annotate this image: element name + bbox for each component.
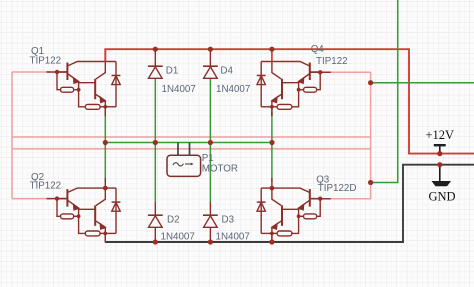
wire: green link bus to Q3 collector <box>271 143 273 183</box>
wire: green link bus to Q2 collector <box>104 143 106 183</box>
transistor Q4 TIP122 (mirrored) <box>257 62 320 117</box>
svg-text:D2: D2 <box>167 215 180 226</box>
svg-text:Q4: Q4 <box>311 44 325 55</box>
node: green bus junction at D1/D2 column <box>153 140 158 145</box>
svg-text:TIP122D: TIP122D <box>318 183 357 194</box>
node: right vertical to green output junction (top) <box>368 80 373 85</box>
node: green bus junction at D4/D3 column <box>208 140 213 145</box>
node: +12V junction on red rail <box>437 151 442 156</box>
svg-text:1N4007: 1N4007 <box>162 84 196 95</box>
wire: salmon Q1 base wire <box>12 71 50 73</box>
node: Q3 base junction <box>318 197 322 201</box>
svg-text:P1: P1 <box>202 153 214 164</box>
pin: Q2 emitter stub <box>104 233 106 242</box>
pin: Q4 emitter stub <box>271 107 273 116</box>
wire: green Q4 emitter drop <box>271 112 273 143</box>
wire: GND black bus right <box>105 165 474 242</box>
wire: salmon base net left vertical <box>11 72 13 199</box>
diode D1 1N4007 <box>148 49 163 78</box>
svg-text:1N4007: 1N4007 <box>216 232 250 243</box>
pin: Q2 base stub <box>47 198 68 200</box>
wire: green D4 column <box>209 79 211 143</box>
svg-text:D1: D1 <box>166 66 179 77</box>
motor P1 <box>167 143 201 177</box>
transistor Q3 TIP122D (mirrored) <box>257 188 320 243</box>
node: D2 bottom junction <box>153 239 158 244</box>
svg-text:+12V: +12V <box>426 128 455 142</box>
node: D3 bottom junction <box>208 239 213 244</box>
node: D1 top junction <box>153 47 158 52</box>
pin: Q3 emitter stub <box>271 233 273 242</box>
pin: Q4 collector stub <box>271 49 273 61</box>
wire: green right L to top edge <box>371 0 398 183</box>
ground symbol GND <box>432 165 452 187</box>
diode D3 1N4007 <box>203 202 218 242</box>
svg-text:TIP122: TIP122 <box>30 181 62 192</box>
node: Q2 collector junction <box>103 186 108 191</box>
svg-text:D4: D4 <box>220 66 233 77</box>
pin: Q1 collector stub <box>104 49 106 61</box>
node: GND junction on black rail <box>437 162 442 167</box>
node: green bus junction at Q1/Q2 column <box>103 140 108 145</box>
pin: Q1 base stub <box>47 71 68 73</box>
node: Q1 base junction <box>55 70 59 74</box>
wire: green D3 column <box>209 143 211 203</box>
node: D4 top junction <box>208 47 213 52</box>
wire: salmon Q3 base wire <box>327 198 371 200</box>
svg-text:TIP122: TIP122 <box>30 56 62 67</box>
wire: green center bus <box>105 142 272 144</box>
wire: salmon middle bus 2 <box>12 148 371 150</box>
svg-text:D3: D3 <box>222 215 235 226</box>
wire: green Q1 emitter drop <box>104 112 106 143</box>
wire: salmon middle bus 1 <box>12 136 371 138</box>
wire: salmon Q2 base wire <box>12 198 50 200</box>
node: Q4 collector junction on +12V bus <box>269 47 274 52</box>
node: right vertical to green output junction (bottom) <box>368 180 373 185</box>
wire: salmon right vertical <box>370 72 372 198</box>
wire: green D1 column <box>154 79 156 143</box>
svg-text:1N4007: 1N4007 <box>161 232 195 243</box>
wire: green D2 column <box>154 143 156 203</box>
svg-text:TIP122: TIP122 <box>316 56 348 67</box>
node: Q3 emitter junction on GND bus <box>269 239 274 244</box>
wire: green right output horizontal <box>371 82 474 84</box>
transistor Q2 TIP122 <box>57 188 120 243</box>
pin: Q2 collector stub <box>104 178 106 188</box>
pin: Q3 base stub <box>310 198 331 200</box>
node: green bus junction at Q4/Q3 column <box>269 140 274 145</box>
transistor Q1 TIP122 <box>57 62 120 117</box>
svg-text:MOTOR: MOTOR <box>202 164 238 175</box>
wire: salmon Q4 base wire <box>327 71 371 73</box>
supply +12V symbol <box>434 145 446 153</box>
pin: Q3 collector stub <box>271 178 273 188</box>
node: Q4 base junction <box>318 70 322 74</box>
pin: Q4 base stub <box>310 71 331 73</box>
wire: +12V red bus along top <box>105 49 474 153</box>
diode D4 1N4007 <box>203 49 218 78</box>
node: Q2 base junction <box>55 196 59 200</box>
diode D2 1N4007 <box>148 202 163 242</box>
svg-text:GND: GND <box>429 190 456 204</box>
pin: Q1 emitter stub <box>104 107 106 116</box>
svg-text:1N4007: 1N4007 <box>216 84 250 95</box>
node: Q3 collector junction <box>270 186 275 191</box>
